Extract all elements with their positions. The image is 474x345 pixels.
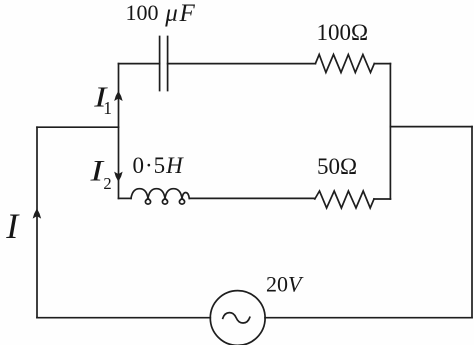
AC source sine symbol [223,313,250,323]
wire top branch middle segment [168,63,316,65]
wire parallel right vertical [389,64,391,199]
wire bottom left segment [37,317,210,319]
svg-text:100Ω: 100Ω [317,20,369,45]
svg-text:μF: μF [164,0,196,27]
svg-text:50Ω: 50Ω [317,154,357,179]
wire parallel left vertical [118,64,120,199]
wire top branch right segment [374,63,390,65]
capacitor C1 plates [160,37,168,91]
wire right outer vertical [471,127,473,318]
wire middle right connector [390,126,472,128]
wire left outer vertical [36,127,38,318]
wire middle left connector [37,126,119,128]
svg-text:1: 1 [103,98,112,118]
arrowhead I up [34,210,41,218]
svg-text:2: 2 [103,174,111,193]
inductor L1 coil [131,189,189,204]
arrowhead I1 up [115,92,122,100]
AC source V1 circle [210,291,265,345]
wire bottom right segment [265,317,472,319]
resistor R1 100ohm zigzag [315,55,374,73]
wire top branch left segment [119,63,160,65]
label I2 branch current [89,155,104,188]
wire bottom branch right segment [374,198,390,200]
svg-text:100: 100 [126,0,159,25]
svg-text:I: I [5,206,20,246]
wire bottom branch lead left [119,197,132,199]
svg-text:20V: 20V [266,272,304,297]
svg-text:0·5H: 0·5H [133,153,185,178]
label I1 branch current [93,82,109,113]
arrowhead I2 down [115,173,122,181]
wire bottom branch middle segment [189,197,314,199]
resistor R2 50ohm zigzag [315,191,374,208]
